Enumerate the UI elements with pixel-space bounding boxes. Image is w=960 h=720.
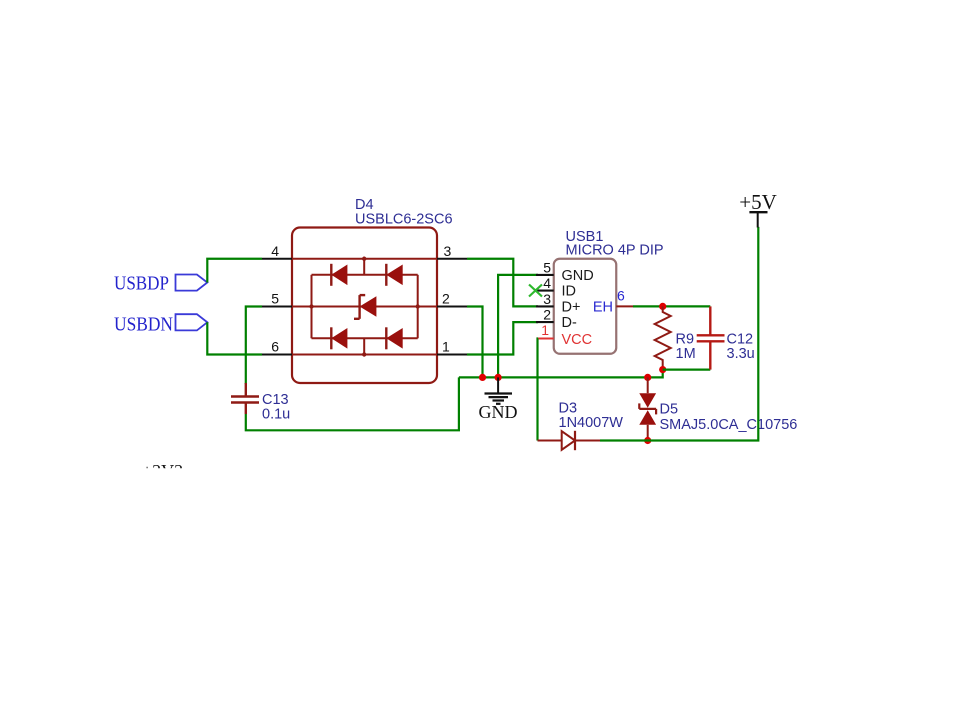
D4 pin 3: [437, 258, 467, 260]
svg-text:4: 4: [543, 275, 551, 291]
wire USB1 GND pin to GND rail: [498, 275, 538, 378]
cropped +3V3 text at bottom: [142, 461, 183, 481]
svg-text:2: 2: [442, 291, 450, 307]
D4 stub bottom center: [363, 338, 365, 354]
svg-text:GND: GND: [479, 402, 518, 422]
svg-text:D5: D5: [660, 402, 679, 418]
wire C13 bottom to GND rail: [246, 377, 459, 430]
svg-text:MICRO 4P DIP: MICRO 4P DIP: [566, 243, 664, 259]
USB1 pin 1: [538, 338, 554, 340]
wire USBDP to D4 pin4: [207, 259, 262, 283]
D4 internal line row 4-3: [292, 258, 437, 260]
D4 junction dot mid-left: [309, 304, 313, 308]
no-connect X on pin 4: [529, 285, 542, 297]
USB1 pin 6: [616, 305, 633, 307]
junction dot D5 top: [644, 374, 651, 381]
junction dot R9 top: [659, 303, 666, 310]
svg-text:3: 3: [444, 243, 452, 259]
USB1 pin 5: [536, 274, 554, 276]
svg-text:6: 6: [271, 339, 279, 355]
svg-text:SMAJ5.0CA_C10756: SMAJ5.0CA_C10756: [660, 417, 798, 433]
svg-text:USBDN: USBDN: [114, 313, 173, 335]
D4 diode bottom-right: [386, 327, 402, 349]
D4 internal line row 6-1: [292, 354, 437, 356]
D4 stub top center: [363, 259, 365, 275]
svg-text:ID: ID: [562, 284, 577, 300]
svg-text:+5V: +5V: [739, 190, 777, 214]
D4 diode top-left: [331, 264, 347, 286]
svg-text:GND: GND: [562, 268, 594, 284]
wire D3 cathode to +5V rail: [600, 227, 758, 441]
svg-text:0.1u: 0.1u: [262, 407, 290, 423]
wire D4 pin3 to USB1 D+: [467, 259, 538, 307]
ground symbol: [485, 377, 513, 403]
junction dot GND rail right: [495, 374, 502, 381]
svg-text:5: 5: [543, 259, 551, 275]
USB1 pin 2: [536, 321, 554, 323]
junction dot R9 bottom: [659, 366, 666, 373]
capacitor C13: [231, 383, 259, 414]
svg-text:1N4007W: 1N4007W: [559, 415, 624, 431]
junction dot GND rail left: [479, 374, 486, 381]
svg-text:1: 1: [442, 339, 450, 355]
svg-text:4: 4: [271, 243, 279, 259]
connector USB1 box: [554, 259, 617, 354]
D4 diode bottom-left: [331, 327, 347, 349]
USB1 pin 3: [536, 305, 554, 307]
port USBDN symbol: [176, 314, 208, 330]
USB1 pin 4: [536, 290, 554, 292]
resistor R9: [655, 306, 671, 369]
svg-text:3.3u: 3.3u: [727, 346, 755, 362]
svg-text:6: 6: [617, 288, 625, 304]
D4 inner rect right vertical: [417, 275, 419, 339]
svg-text:5: 5: [271, 291, 279, 307]
D4 pin 2: [437, 305, 467, 307]
D4 pin 4: [262, 258, 292, 260]
D4 junction dot mid-right: [416, 304, 420, 308]
diode D3: [538, 431, 601, 450]
D4 bottom diode rail: [312, 337, 418, 339]
wire D4 pin2 to GND rail: [467, 307, 483, 378]
svg-text:USBLC6-2SC6: USBLC6-2SC6: [355, 212, 453, 228]
svg-text:USBDP: USBDP: [114, 272, 169, 294]
D4 top diode rail: [312, 274, 418, 276]
svg-text:EH: EH: [593, 299, 613, 315]
svg-text:2: 2: [543, 307, 551, 323]
diode D5 TVS: [639, 377, 656, 440]
svg-text:D+: D+: [562, 299, 581, 315]
D4 diode top-right: [386, 264, 402, 286]
svg-text:1M: 1M: [676, 346, 696, 362]
GND rail wire: [459, 370, 663, 378]
capacitor C12: [697, 306, 725, 369]
power +5V symbol: [749, 212, 767, 227]
D4 junction dot top: [362, 257, 366, 261]
D4 inner rect left vertical: [311, 275, 313, 339]
component D4 box: [292, 228, 437, 384]
wire pin6 to R9 and C12: [633, 305, 710, 307]
junction dot D5 bottom: [644, 437, 651, 444]
wire R9 bottom to C12 bottom: [663, 369, 711, 371]
wire USBDN to D4 pin6: [207, 322, 262, 354]
D4 junction dot bottom: [362, 352, 366, 356]
wire D4 pin1 to USB1 D-: [467, 322, 538, 354]
D4 pin 1: [437, 353, 467, 355]
wire D4 pin5 to C13: [246, 307, 262, 385]
wire VCC to D3 anode: [536, 339, 539, 441]
D4 pin 5: [262, 305, 292, 307]
svg-text:3: 3: [543, 291, 551, 307]
D4 zener diode center: [354, 295, 376, 319]
svg-text:VCC: VCC: [562, 332, 593, 348]
D4 pin 6: [262, 353, 292, 355]
port USBDP symbol: [176, 275, 208, 291]
svg-text:1: 1: [541, 322, 549, 338]
svg-text:D-: D-: [562, 315, 577, 331]
D4 internal line row 5-2: [292, 306, 437, 308]
